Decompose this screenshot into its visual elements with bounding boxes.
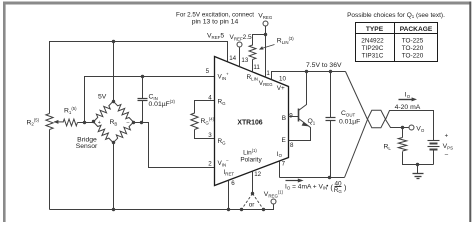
svg-text:B: B	[282, 115, 286, 122]
svg-text:VPS⁠: VPS⁠	[443, 143, 453, 150]
svg-text:4-20 mA: 4-20 mA	[395, 104, 421, 111]
svg-text:7.5V to 36V: 7.5V to 36V	[306, 62, 342, 69]
svg-text:Sensor: Sensor	[76, 143, 98, 150]
bridge resistor bottom-left arm	[93, 122, 113, 143]
svg-text:COUT⁠: COUT⁠	[341, 110, 356, 117]
svg-text:12: 12	[254, 171, 261, 178]
svg-text:XTR106: XTR106	[237, 119, 262, 126]
svg-text:11: 11	[253, 64, 260, 71]
resistor RG	[191, 113, 198, 130]
node junction bridge riser on 5V rail	[112, 40, 115, 43]
wire bridge right to VIN- corner	[134, 123, 215, 168]
svg-text:VO⁠: VO⁠	[416, 125, 425, 132]
svg-text:R2⁠(5): R2⁠(5)	[27, 118, 40, 127]
svg-text:2: 2	[208, 161, 212, 168]
svg-text:VREF⁠2.5: VREF⁠2.5	[230, 34, 253, 41]
svg-text:+: +	[98, 120, 101, 126]
svg-text:VREG⁠(1): VREG⁠(1)	[264, 190, 284, 199]
page border frame top	[3, 2, 471, 5]
wire RL bottom lead	[403, 152, 434, 165]
svg-text:PACKAGE: PACKAGE	[400, 26, 433, 33]
node bridge bottom	[112, 141, 115, 144]
svg-text:+: +	[445, 133, 449, 139]
wire bridge bottom riser	[113, 143, 115, 210]
svg-text:TO-220: TO-220	[402, 52, 424, 59]
resistor RL	[398, 138, 406, 152]
node junction Q1 collector	[305, 70, 308, 73]
terminal VREF2.5	[237, 42, 242, 47]
transistor Q1 collector	[299, 72, 307, 111]
table divider vertical	[394, 23, 396, 62]
svg-text:pin 13 to pin 14: pin 13 to pin 14	[192, 18, 239, 25]
svg-text:V+: V+	[277, 85, 285, 92]
wire VIN+ to pin 5	[85, 77, 215, 123]
wire dashed option right	[253, 194, 264, 210]
svg-text:6: 6	[231, 180, 235, 187]
wire twisted pair lower-left diagonal	[345, 120, 368, 178]
capacitor CIN	[142, 77, 144, 99]
svg-text:TO-220: TO-220	[402, 45, 424, 52]
terminal VREG top	[263, 21, 268, 26]
svg-text:or: or	[249, 201, 256, 208]
op-amp block XTR106 outline	[215, 57, 289, 186]
node junction COUT top	[329, 70, 332, 73]
svg-text:10: 10	[279, 76, 286, 83]
resistor R1	[63, 119, 78, 126]
node junction CIN bottom	[140, 121, 143, 124]
wire bottom IRET rail	[50, 205, 274, 210]
wire pin 1 riser	[265, 35, 267, 78]
transistor Q1 emitter arrow	[302, 122, 310, 127]
node junction pin12 dashes	[251, 192, 254, 195]
wire R1 right lead to bridge	[78, 122, 94, 124]
wire 5V rail top	[50, 42, 228, 114]
svg-text:3: 3	[208, 132, 212, 139]
terminal VREG bottom	[271, 199, 276, 204]
wire pin 13 riser	[239, 48, 241, 67]
svg-text:•: •	[326, 184, 328, 190]
svg-text:R1⁠(5): R1⁠(5)	[64, 106, 77, 115]
node junction COUT bottom	[328, 176, 331, 179]
wire RL top lead	[402, 128, 404, 138]
svg-text:4: 4	[208, 95, 212, 102]
svg-text:5: 5	[206, 68, 210, 75]
node junction ground	[416, 163, 419, 166]
svg-text:VREG⁠: VREG⁠	[258, 13, 273, 20]
wire VREG to junction	[265, 26, 267, 35]
wire IO output	[280, 177, 345, 179]
table header separator	[356, 33, 438, 35]
wire twisted pair lens	[368, 110, 386, 127]
node junction bridge bottom rail	[112, 208, 115, 211]
node bridge top	[112, 100, 115, 103]
wire dashed option left	[242, 194, 253, 210]
svg-text:1: 1	[266, 70, 270, 77]
wire RG to pin3	[195, 130, 215, 139]
svg-text:2N4922: 2N4922	[361, 38, 384, 45]
wire twisted pair upper-left diagonal	[346, 72, 368, 120]
battery VPS	[428, 140, 440, 142]
arrow RLIN pointer	[262, 45, 275, 49]
node junction dash right	[262, 208, 265, 211]
svg-text:Q1⁠: Q1⁠	[308, 118, 316, 125]
bridge resistor bottom-right arm	[113, 122, 133, 143]
svg-text:E: E	[282, 137, 286, 144]
resistor RLIN	[249, 45, 256, 60]
transistor Q1 emitter	[289, 119, 311, 141]
svg-text:CIN⁠: CIN⁠	[149, 94, 158, 101]
transistor Q1 base stub pin 9	[289, 116, 299, 118]
svg-text:): )	[344, 183, 347, 192]
wire twisted pair upper-right diverge	[386, 111, 434, 141]
svg-text:TIP29C: TIP29C	[362, 45, 384, 52]
svg-text:7: 7	[282, 161, 286, 168]
svg-text:RL⁠: RL⁠	[384, 143, 392, 150]
svg-text:5V: 5V	[98, 94, 107, 101]
svg-text:13: 13	[241, 57, 248, 64]
wire RLIN top lead	[253, 35, 266, 46]
wire pin 12 riser	[252, 172, 254, 194]
svg-text:IO⁠ = 4mA + VIN⁠: IO⁠ = 4mA + VIN⁠	[285, 183, 327, 190]
svg-text:IO⁠: IO⁠	[405, 92, 411, 99]
svg-text:0.01µF(2): 0.01µF(2)	[149, 99, 176, 108]
svg-text:For 2.5V excitation, connect: For 2.5V excitation, connect	[176, 11, 254, 18]
svg-text:RLIN⁠(3): RLIN⁠(3)	[277, 36, 294, 45]
svg-text:RG⁠(4): RG⁠(4)	[201, 117, 215, 126]
bridge resistor top-right arm	[113, 101, 133, 122]
svg-text:–: –	[127, 120, 130, 126]
node junction dash left	[240, 208, 243, 211]
svg-text:8: 8	[290, 142, 294, 149]
svg-text:VREF⁠5: VREF⁠5	[207, 33, 224, 40]
svg-text:Possible choices for Q1⁠ (see: Possible choices for Q1⁠ (see text).	[347, 12, 445, 19]
node bridge right	[132, 121, 135, 124]
svg-text:–: –	[445, 152, 449, 158]
wire pin 10 riser	[272, 72, 346, 80]
ground	[417, 165, 419, 174]
terminal VO	[409, 125, 414, 130]
wire pin 11 riser	[252, 60, 254, 72]
svg-text:RB⁠: RB⁠	[110, 119, 118, 126]
wire twisted pair lower-right diverge	[386, 120, 409, 128]
page border frame left	[3, 2, 6, 223]
svg-text:TO-225: TO-225	[402, 38, 424, 45]
svg-text:Polarity: Polarity	[240, 157, 262, 164]
node junction CIN top	[141, 75, 144, 78]
node junction VO/RL	[401, 126, 404, 129]
wire pin 6 riser	[228, 181, 230, 210]
wire R2 bottom lead	[49, 130, 51, 210]
arrow IO loop	[399, 99, 414, 101]
bridge resistor top-left arm	[93, 101, 113, 122]
svg-text:0.01µF: 0.01µF	[339, 118, 360, 125]
wiper arrow into R2	[54, 121, 63, 123]
node junction pin6 rail	[227, 208, 230, 211]
transistor Q1 base bar	[298, 109, 300, 122]
resistor R2	[46, 114, 53, 130]
wire pin 7 riser	[279, 162, 281, 178]
arrow IO small	[286, 180, 300, 182]
wire bridge top riser	[113, 42, 115, 102]
node junction VREG/RLIN	[264, 33, 267, 36]
node bridge left	[92, 120, 95, 123]
node junction pin5 riser	[83, 121, 86, 124]
svg-text:TIP31C: TIP31C	[362, 52, 384, 59]
svg-text:RG⁠: RG⁠	[334, 187, 342, 194]
svg-text:14: 14	[229, 55, 236, 62]
svg-text:TYPE: TYPE	[366, 26, 384, 33]
wire pin4 to RG	[195, 101, 215, 114]
table box	[356, 23, 438, 62]
capacitor COUT	[330, 72, 332, 118]
page border frame right	[469, 2, 471, 223]
